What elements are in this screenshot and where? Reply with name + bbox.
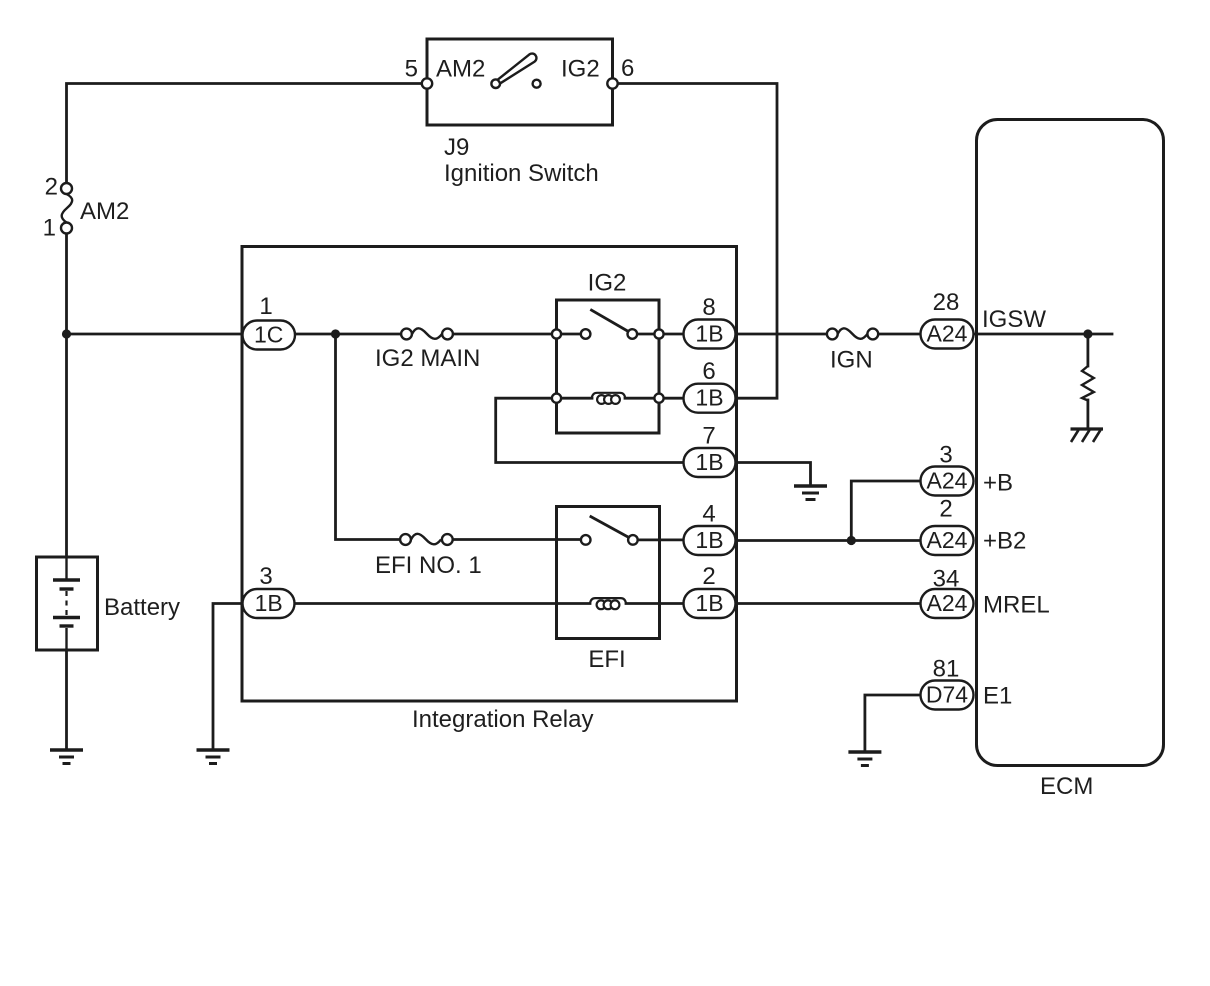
terminal 1C (pin 1) xyxy=(243,321,296,350)
wire 1B-3 to left ground xyxy=(213,604,242,751)
terminal 1B (pin 6) xyxy=(684,384,736,413)
wire terminal 4 to A24-2 +B2 xyxy=(736,539,921,542)
wire branch up to A24-3 +B xyxy=(851,481,920,541)
svg-text:5: 5 xyxy=(405,56,418,83)
svg-text:IG2: IG2 xyxy=(561,56,600,83)
svg-text:IG2 MAIN: IG2 MAIN xyxy=(375,345,480,372)
wire IG2 MAIN fuse to IG2 relay xyxy=(453,333,552,336)
terminal 1B (pin 8) xyxy=(684,320,736,349)
svg-text:IGN: IGN xyxy=(830,347,873,374)
resistor (IGSW pull-down) xyxy=(1082,366,1094,401)
wire branch junction down to EFI NO.1 row xyxy=(336,334,401,540)
wire terminal 8 to IGN fuse xyxy=(736,333,828,336)
svg-text:IGSW: IGSW xyxy=(982,306,1046,333)
fuse EFI NO. 1 xyxy=(400,534,453,545)
wire IG2 relay switch inner segments xyxy=(561,333,581,336)
wire terminal 2 to A24-34 MREL xyxy=(736,602,921,605)
terminal 1B (pin 3) xyxy=(243,589,295,618)
svg-text:Battery: Battery xyxy=(104,594,180,621)
relay IG2 switch contacts xyxy=(552,329,664,339)
terminal 1B (pin 2) xyxy=(684,589,736,618)
terminal 1B (pin 7) xyxy=(684,448,736,477)
svg-text:ECM: ECM xyxy=(1040,773,1093,800)
ground (E1) xyxy=(848,752,881,766)
ignition switch contact IG2 xyxy=(533,80,541,88)
relay EFI coil xyxy=(590,598,626,609)
wire ignition switch IG2 output down to relay coil row xyxy=(613,84,778,399)
svg-text:+B: +B xyxy=(983,470,1013,497)
relay EFI switch contacts xyxy=(581,535,638,545)
svg-text:MREL: MREL xyxy=(983,592,1050,619)
svg-text:A24: A24 xyxy=(927,468,968,494)
svg-text:EFI: EFI xyxy=(588,646,625,673)
wire IG2 coil row internal stubs xyxy=(561,397,592,400)
wire 1B-3 row to EFI coil and terminal 2 xyxy=(294,602,590,605)
wire battery negative to ground xyxy=(65,650,68,750)
svg-text:1C: 1C xyxy=(254,322,283,348)
wire 1C to IG2 MAIN fuse xyxy=(295,333,401,336)
ignition switch box J9 xyxy=(427,39,613,125)
svg-text:+B2: +B2 xyxy=(983,528,1026,555)
svg-text:2: 2 xyxy=(702,563,715,590)
svg-text:1B: 1B xyxy=(695,527,723,553)
wire D74-81 E1 to ground xyxy=(865,695,921,752)
svg-text:28: 28 xyxy=(933,289,960,316)
svg-text:34: 34 xyxy=(933,566,960,593)
svg-text:A24: A24 xyxy=(927,590,968,616)
svg-text:Integration Relay: Integration Relay xyxy=(412,706,593,733)
wire terminal 7 to ground xyxy=(736,463,811,487)
relay EFI switch blade xyxy=(590,516,628,537)
svg-text:Ignition Switch: Ignition Switch xyxy=(444,160,599,187)
wire main bus B+ to integration relay xyxy=(67,333,243,336)
relay IG2 coil terminals xyxy=(552,394,664,403)
junction dot +B branch xyxy=(847,536,856,545)
svg-text:8: 8 xyxy=(702,294,715,321)
svg-text:81: 81 xyxy=(933,656,960,683)
integration relay box xyxy=(242,247,737,702)
svg-text:EFI NO. 1: EFI NO. 1 xyxy=(375,552,482,579)
wire EFI NO.1 fuse to EFI relay switch xyxy=(453,538,581,541)
junction dot bus/battery xyxy=(62,329,71,338)
ignition switch terminal 6 xyxy=(607,78,617,88)
svg-text:1B: 1B xyxy=(695,449,723,475)
svg-text:1B: 1B xyxy=(695,321,723,347)
ignition switch terminal 5 xyxy=(422,78,432,88)
svg-text:E1: E1 xyxy=(983,683,1012,710)
fuse IG2 MAIN xyxy=(401,328,453,339)
svg-text:6: 6 xyxy=(702,358,715,385)
fuse IGN xyxy=(827,328,878,339)
wire battery-positive vertical (top-left) xyxy=(67,84,428,184)
wire IG2 coil right to terminal 6 xyxy=(664,397,684,400)
svg-text:2: 2 xyxy=(939,496,952,523)
wire IGSW inside ECM xyxy=(974,333,1113,336)
svg-text:1B: 1B xyxy=(695,590,723,616)
wire IG2 relay coil left to terminal 7 (loop under box) xyxy=(496,398,684,462)
svg-text:IG2: IG2 xyxy=(588,270,627,297)
svg-text:AM2: AM2 xyxy=(436,56,485,83)
svg-text:3: 3 xyxy=(259,563,272,590)
svg-text:1: 1 xyxy=(259,293,272,320)
svg-text:7: 7 xyxy=(702,423,715,450)
ground (battery) xyxy=(50,750,83,764)
junction dot relay branch xyxy=(331,329,340,338)
ECM box xyxy=(977,120,1164,766)
svg-text:3: 3 xyxy=(939,442,952,469)
svg-text:1B: 1B xyxy=(695,385,723,411)
svg-text:AM2: AM2 xyxy=(80,198,129,225)
svg-text:1: 1 xyxy=(43,215,56,242)
svg-text:A24: A24 xyxy=(927,321,968,347)
wire fuse AM2 to bus and battery xyxy=(65,234,68,558)
fuse AM2 xyxy=(61,183,72,234)
relay IG2 box xyxy=(557,300,660,433)
connector A24 pin 28 xyxy=(921,320,974,349)
svg-text:A24: A24 xyxy=(927,527,968,553)
svg-text:J9: J9 xyxy=(444,134,469,161)
relay EFI box xyxy=(557,507,660,639)
wire IGN fuse to A24-28 xyxy=(878,333,920,336)
battery xyxy=(37,557,98,650)
svg-text:6: 6 xyxy=(621,55,634,82)
terminal 1B (pin 4) xyxy=(684,526,736,555)
junction dot IGSW pull-down xyxy=(1083,329,1092,338)
wire resistor to chassis ground xyxy=(1087,334,1090,366)
wire IG2 relay to terminal 8 xyxy=(664,333,684,336)
wire EFI relay switch to terminal 4 xyxy=(638,539,684,542)
ignition switch contact AM2 xyxy=(491,79,500,88)
connector A24 pin 3 xyxy=(921,467,974,496)
connector D74 pin 81 xyxy=(921,681,974,710)
connector A24 pin 34 xyxy=(921,589,974,618)
chassis ground (resistor) xyxy=(1071,429,1104,442)
svg-text:4: 4 xyxy=(702,501,715,528)
svg-text:1B: 1B xyxy=(255,590,283,616)
svg-text:2: 2 xyxy=(45,174,58,201)
relay IG2 switch blade xyxy=(590,309,627,331)
relay IG2 coil xyxy=(592,393,626,404)
svg-text:D74: D74 xyxy=(926,682,968,708)
connector A24 pin 2 xyxy=(921,526,974,555)
ground (terminal 3) xyxy=(197,750,230,764)
ignition switch lever xyxy=(498,54,537,84)
ground (terminal 7) xyxy=(794,486,827,500)
